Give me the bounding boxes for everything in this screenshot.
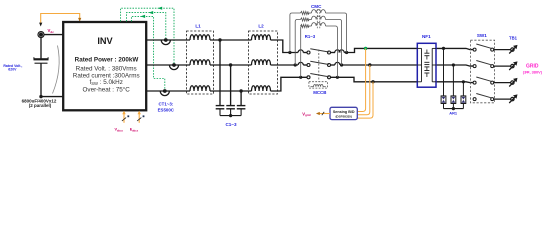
resistor R1 [301,11,310,14]
filter box L1 (dashed) [187,31,214,94]
terminal TB1-3 [509,78,517,87]
junction phase C CMC left tap [299,76,302,79]
wire phase C L1 to L2 [210,90,252,92]
filter box L2 (dashed) [249,31,278,94]
wire phase B INV to L1 [146,64,190,66]
surge arrester 1 [441,96,446,109]
wire R2 to choke [309,19,312,21]
noise filter NF1 box [417,43,436,87]
inductor L1 phase B coil [190,60,210,65]
MCCB trip unit box (dashed) [309,82,328,88]
inverter INV box [63,22,146,110]
svg-text:R1~3: R1~3 [305,34,316,39]
NF1 internal capacitor X2 [424,67,429,77]
wire phase C INV to L1 [146,90,190,92]
svg-text:Vgrid: Vgrid [302,111,310,117]
wire CT2 feedback (outer green hook) [121,7,174,64]
wire Vb sense (orange) [358,65,370,115]
wire C1~3 common bus [220,115,241,117]
wire phase A MCCB to jog [331,52,336,54]
wire C3 drop [240,91,242,106]
inductor L2 phase C coil [252,86,271,91]
svg-text:L1: L1 [195,24,201,29]
NF1 internal capacitor X1 [424,50,429,60]
junction phase A CMC right tap [345,51,348,54]
label CT1~3 ES600C [158,102,175,113]
wire phase B to MCCB pole [303,64,307,66]
junction phase B sense tap [368,63,371,66]
svg-text:Sensing B/D: Sensing B/D [333,110,355,114]
junction phase A sense tap (green) [364,47,367,50]
svg-text:ES500C: ES500C [158,108,175,113]
wire phase A L1 to L2 [210,39,252,41]
wire phase B MCCB to hop [331,64,335,66]
junction arrester tap C [462,80,465,83]
node Vdc probe point [38,32,44,38]
MCCB pole C contacts [307,74,331,79]
svg-text:C1~3: C1~3 [225,122,237,127]
svg-text:AR1: AR1 [449,110,458,115]
wire arrester bus [444,108,464,110]
svg-text:CMC: CMC [311,4,322,9]
wire left rail lower [40,63,42,96]
wire R1 to choke [309,12,312,14]
capacitor DC-link C (electrolytic) [34,57,49,63]
inductor L2 phase A coil [252,35,271,40]
terminal TB1-2 [509,61,517,70]
wire CT3 feedback (inner green hook) [131,15,164,90]
inductor CMC winding 3 [312,23,326,26]
junction phase B cap tap [229,63,232,66]
wire arrester drop B [452,65,454,96]
switch SW1 pole 2 [473,61,494,68]
leader arc for capacitor label [53,46,60,94]
svg-text:(DSP28335): (DSP28335) [335,115,352,119]
sensing board box [330,107,357,119]
inductor L1 phase C coil [190,86,210,91]
inductor CMC winding 2 [312,16,326,19]
wire CMC row3 right riser [326,26,338,77]
wire SW1 pole 4 to TB1 [494,98,511,100]
switch SW1 pole 4 [473,94,494,101]
wire phase B after hop [340,65,473,66]
wire CT1 feedback (middle green hook) [127,11,166,38]
surge arrester 3 [461,96,466,109]
wire left rail upper [40,35,42,60]
svg-text:Vdc: Vdc [48,28,55,34]
resistor R2 [301,18,310,21]
wire phase A to MCCB pole [303,52,307,54]
inductor L2 phase B coil [252,60,271,65]
svg-text:SW1: SW1 [477,33,487,38]
arrow Eabcs sense (orange) [137,111,144,123]
svg-text:TB1: TB1 [509,36,518,41]
inductor CMC winding 1 [312,10,326,13]
resistor R3 [301,24,310,27]
wire arrester drop A [443,48,445,96]
svg-text:(3Φ, 380V): (3Φ, 380V) [523,69,543,74]
switch SW1 pole 1 [473,44,494,51]
hop phase A over R3 tap [298,50,303,53]
wire DC+ rail to INV [41,34,63,36]
wire phase B L2 to MCCB [271,64,298,66]
junction phase C CMC right tap [336,76,339,79]
NF1 internal choke [424,62,429,67]
junction phase A CMC left tap [288,51,291,54]
wire phase A INV to L1 [146,39,190,41]
hop phase B over R3 tap [298,62,303,65]
junction bottom-left node [39,95,42,98]
svg-text:Rated Volt. : 380Vrms: Rated Volt. : 380Vrms [76,65,137,72]
junction C bus [229,114,232,117]
CMC core lines (dashed) [317,9,320,29]
svg-text:NF1: NF1 [422,34,431,39]
NF1 internal stubs [417,48,436,81]
junction arrester tap B [452,63,455,66]
junction phase B CMC left tap [294,63,297,66]
wire SW1 pole 2 to TB1 [494,65,511,67]
wire arrester drop C [462,82,464,96]
CT sensor CT2 [169,63,178,69]
wire phase A L2 to MCCB (jog down) [271,40,298,53]
wire Vc sense (orange) [358,82,374,118]
junction arrester tap A [442,47,445,50]
wire R3 to choke [309,25,312,27]
surge arrester 2 [451,96,456,109]
capacitor C2 [226,106,235,116]
junction phase A cap tap [218,38,221,41]
svg-text:MCCB: MCCB [313,90,326,95]
label Rated Volt. 620V [3,64,22,72]
wire DC- rail to INV [41,96,63,98]
MCCB pole A contacts [307,49,331,54]
svg-text:CT1~3:: CT1~3: [159,102,174,107]
wire phase C L2 to MCCB (jog up) [271,77,307,91]
svg-text:INV: INV [97,36,113,46]
terminal TB1-4 [509,94,517,103]
hop phase B over CMC right tap [335,62,340,65]
wire phase C MCCB jog down [331,77,474,82]
wire SW1 pole 3 to TB1 [494,82,511,84]
wire CMC row1 left riser [290,13,301,53]
svg-text:(2 parallel): (2 parallel) [29,103,52,108]
junction phase B CMC right tap [340,63,343,66]
wire phase A after hops jog up [344,48,473,52]
MCCB trip coil [311,84,326,86]
arrow Vabcs sense (orange) [122,111,129,123]
wire Va sense (orange) [358,48,366,111]
CT sensor CT3 [160,89,169,96]
MCCB actuator link (dashed) [318,50,320,82]
wire CMC row2 left riser [295,20,300,66]
capacitor C1 [216,106,225,116]
wire CMC row3 left riser [301,26,303,77]
CT sensor CT1 [161,38,170,45]
wire Vgrid arrow (orange) [316,112,330,115]
junction arrester bus [452,107,455,110]
svg-text:Over-heat : 75°C: Over-heat : 75°C [83,85,131,93]
inductor L1 phase A coil [190,35,210,40]
wire Vdc sense (orange) with arrows [39,14,81,27]
switch box SW1 (dashed) [471,40,495,103]
hop phase A over CMC right taps [335,50,344,53]
wire CMC row2 right riser [326,20,342,66]
svg-text:620V: 620V [8,68,17,72]
label 6800uF/400Vx12 (2 parallel) [22,98,57,108]
wire C2 drop [230,65,232,106]
junction phase C sense tap [371,80,374,83]
wire C1 drop [219,40,221,106]
wire CMC row1 right riser [326,13,347,53]
wire SW1 pole 1 to TB1 [494,49,511,51]
wire phase B L1 to L2 [210,64,252,66]
capacitor C3 [237,106,246,116]
terminal TB1-1 [509,45,517,54]
junction phase C cap tap [239,89,242,92]
MCCB pole B contacts [307,61,331,66]
svg-text:Rated Power : 200kW: Rated Power : 200kW [75,56,139,63]
svg-text:L2: L2 [258,24,264,29]
switch SW1 pole 3 [473,77,494,84]
